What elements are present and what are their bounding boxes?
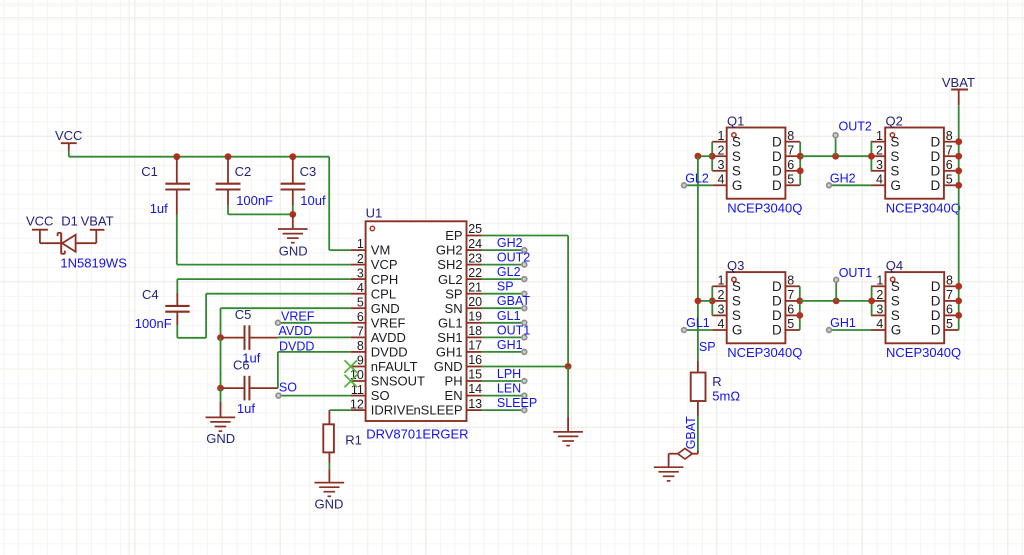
- svg-text:NCEP3040Q: NCEP3040Q: [886, 200, 961, 215]
- svg-text:Q2: Q2: [886, 113, 903, 128]
- svg-text:SP: SP: [445, 286, 462, 301]
- svg-text:4: 4: [718, 173, 725, 187]
- svg-text:S: S: [732, 134, 741, 149]
- svg-text:S: S: [890, 134, 899, 149]
- svg-text:DVDD: DVDD: [279, 339, 314, 353]
- svg-text:S: S: [732, 164, 741, 179]
- svg-text:AVDD: AVDD: [371, 330, 406, 345]
- svg-text:8: 8: [787, 274, 794, 288]
- svg-text:12: 12: [350, 397, 364, 411]
- svg-text:3: 3: [876, 158, 883, 172]
- svg-text:Q3: Q3: [727, 258, 744, 273]
- svg-text:5: 5: [787, 173, 794, 187]
- svg-text:GL1: GL1: [686, 316, 710, 330]
- svg-text:19: 19: [468, 310, 482, 324]
- svg-text:GH2: GH2: [436, 243, 463, 258]
- svg-text:SP: SP: [497, 280, 514, 294]
- svg-text:8: 8: [787, 129, 794, 143]
- svg-text:D: D: [931, 178, 941, 193]
- svg-text:G: G: [732, 178, 743, 193]
- svg-text:GH2: GH2: [497, 236, 523, 250]
- svg-text:5mΩ: 5mΩ: [712, 389, 740, 404]
- svg-text:24: 24: [468, 237, 482, 251]
- svg-text:SO: SO: [371, 388, 390, 403]
- svg-text:20: 20: [468, 295, 482, 309]
- svg-text:LEN: LEN: [497, 382, 521, 396]
- svg-text:CPL: CPL: [371, 286, 396, 301]
- svg-text:C4: C4: [142, 287, 159, 302]
- svg-text:1: 1: [876, 129, 883, 143]
- svg-text:R: R: [712, 374, 721, 389]
- svg-text:3: 3: [357, 266, 364, 280]
- svg-text:D: D: [772, 279, 782, 294]
- svg-text:DRV8701ERGER: DRV8701ERGER: [366, 427, 468, 442]
- svg-text:6: 6: [946, 158, 953, 172]
- svg-text:D1: D1: [61, 213, 78, 228]
- svg-text:2: 2: [876, 143, 883, 157]
- svg-text:18: 18: [468, 324, 482, 338]
- svg-text:SLEEP: SLEEP: [497, 396, 537, 410]
- svg-text:D: D: [772, 134, 782, 149]
- svg-text:6: 6: [946, 303, 953, 317]
- svg-text:4: 4: [876, 317, 883, 331]
- svg-text:SH1: SH1: [437, 330, 462, 345]
- svg-text:SN: SN: [445, 301, 463, 316]
- svg-text:2: 2: [876, 288, 883, 302]
- svg-text:VBAT: VBAT: [942, 75, 975, 90]
- svg-text:nSLEEP: nSLEEP: [413, 403, 462, 418]
- svg-text:D: D: [931, 323, 941, 338]
- svg-text:VREF: VREF: [281, 310, 315, 324]
- svg-text:14: 14: [468, 382, 482, 396]
- svg-text:8: 8: [357, 339, 364, 353]
- svg-text:11: 11: [351, 383, 364, 397]
- svg-text:S: S: [732, 308, 741, 323]
- svg-text:D: D: [772, 149, 782, 164]
- svg-text:4: 4: [718, 317, 725, 331]
- svg-text:2: 2: [718, 143, 725, 157]
- svg-text:OUT2: OUT2: [497, 251, 530, 265]
- svg-text:10uf: 10uf: [300, 193, 326, 208]
- svg-text:21: 21: [468, 280, 482, 294]
- svg-text:GH1: GH1: [497, 338, 523, 352]
- svg-text:8: 8: [946, 274, 953, 288]
- svg-text:6: 6: [357, 310, 364, 324]
- svg-text:D: D: [931, 164, 941, 179]
- svg-text:DVDD: DVDD: [371, 345, 408, 360]
- svg-text:5: 5: [946, 173, 953, 187]
- svg-text:17: 17: [468, 339, 482, 353]
- svg-text:16: 16: [468, 353, 482, 367]
- svg-text:VCC: VCC: [55, 128, 82, 143]
- svg-text:GH2: GH2: [830, 171, 856, 185]
- svg-text:G: G: [891, 323, 902, 338]
- svg-text:GND: GND: [279, 244, 308, 259]
- svg-text:D: D: [772, 294, 782, 309]
- svg-text:S: S: [732, 149, 741, 164]
- svg-text:S: S: [890, 149, 899, 164]
- svg-text:D: D: [931, 134, 941, 149]
- svg-text:AVDD: AVDD: [279, 324, 313, 338]
- svg-text:GBAT: GBAT: [497, 294, 530, 308]
- svg-text:D: D: [931, 308, 941, 323]
- svg-text:Q4: Q4: [886, 258, 903, 273]
- svg-text:D: D: [772, 178, 782, 193]
- svg-text:1uf: 1uf: [150, 201, 168, 216]
- svg-text:D: D: [931, 279, 941, 294]
- svg-text:C5: C5: [235, 307, 252, 322]
- svg-text:25: 25: [468, 222, 482, 236]
- svg-text:GL1: GL1: [497, 309, 521, 323]
- svg-text:9: 9: [357, 354, 364, 368]
- svg-text:G: G: [732, 323, 743, 338]
- svg-text:VCC: VCC: [26, 214, 53, 229]
- svg-text:NCEP3040Q: NCEP3040Q: [727, 345, 802, 360]
- svg-text:G: G: [890, 178, 901, 193]
- svg-text:2: 2: [718, 288, 725, 302]
- svg-text:7: 7: [787, 288, 794, 302]
- svg-text:GL1: GL1: [438, 315, 463, 330]
- svg-text:SO: SO: [279, 381, 297, 395]
- svg-text:R1: R1: [345, 433, 362, 448]
- svg-text:3: 3: [718, 158, 725, 172]
- svg-text:5: 5: [946, 317, 953, 331]
- svg-text:1: 1: [718, 274, 725, 288]
- svg-text:4: 4: [876, 173, 883, 187]
- svg-text:S: S: [732, 279, 741, 294]
- svg-text:D: D: [931, 294, 941, 309]
- svg-text:U1: U1: [366, 206, 383, 221]
- svg-text:22: 22: [468, 266, 482, 280]
- svg-text:100nF: 100nF: [236, 193, 273, 208]
- svg-text:D: D: [772, 323, 782, 338]
- svg-text:SNSOUT: SNSOUT: [371, 374, 425, 389]
- svg-text:8: 8: [946, 129, 953, 143]
- svg-text:5: 5: [357, 295, 364, 309]
- svg-text:SP: SP: [699, 340, 716, 354]
- svg-text:100nF: 100nF: [135, 316, 172, 331]
- svg-text:7: 7: [946, 288, 953, 302]
- svg-text:23: 23: [468, 251, 482, 265]
- svg-text:GND: GND: [434, 359, 463, 374]
- svg-text:VREF: VREF: [371, 315, 406, 330]
- svg-text:1uf: 1uf: [237, 401, 255, 416]
- svg-text:S: S: [732, 294, 741, 309]
- svg-text:6: 6: [787, 303, 794, 317]
- svg-text:1: 1: [357, 237, 364, 251]
- svg-text:OUT1: OUT1: [839, 266, 872, 280]
- svg-text:OUT1: OUT1: [497, 323, 530, 337]
- svg-text:GH1: GH1: [436, 345, 463, 360]
- svg-text:D: D: [931, 149, 941, 164]
- svg-text:3: 3: [876, 303, 883, 317]
- svg-text:7: 7: [787, 143, 794, 157]
- svg-text:GL2: GL2: [685, 171, 709, 185]
- svg-text:GND: GND: [314, 497, 343, 512]
- svg-text:4: 4: [357, 281, 364, 295]
- svg-text:13: 13: [468, 397, 482, 411]
- svg-text:GND: GND: [206, 431, 235, 446]
- svg-text:C2: C2: [235, 164, 252, 179]
- svg-text:VM: VM: [371, 243, 391, 258]
- svg-text:Q1: Q1: [727, 113, 744, 128]
- svg-text:S: S: [890, 164, 899, 179]
- svg-text:3: 3: [718, 303, 725, 317]
- svg-text:VCP: VCP: [371, 257, 398, 272]
- svg-text:1N5819WS: 1N5819WS: [60, 256, 127, 271]
- svg-text:2: 2: [357, 252, 364, 266]
- svg-text:C3: C3: [300, 164, 317, 179]
- svg-text:S: S: [891, 279, 900, 294]
- svg-text:D: D: [772, 308, 782, 323]
- svg-text:D: D: [772, 164, 782, 179]
- svg-text:GBAT: GBAT: [684, 416, 698, 449]
- svg-text:IDRIVE: IDRIVE: [371, 403, 415, 418]
- svg-text:1: 1: [876, 274, 883, 288]
- svg-text:CPH: CPH: [371, 272, 398, 287]
- svg-text:EP: EP: [445, 228, 462, 243]
- svg-text:nFAULT: nFAULT: [371, 359, 418, 374]
- svg-text:NCEP3040Q: NCEP3040Q: [727, 200, 802, 215]
- svg-text:GL2: GL2: [438, 272, 463, 287]
- svg-text:GH1: GH1: [830, 316, 856, 330]
- svg-text:NCEP3040Q: NCEP3040Q: [886, 345, 961, 360]
- svg-text:S: S: [891, 308, 900, 323]
- svg-text:SH2: SH2: [437, 257, 462, 272]
- svg-text:7: 7: [357, 325, 364, 339]
- svg-text:15: 15: [468, 368, 482, 382]
- svg-text:LPH: LPH: [497, 367, 521, 381]
- svg-text:S: S: [891, 294, 900, 309]
- svg-text:GL2: GL2: [497, 265, 521, 279]
- svg-text:GND: GND: [371, 301, 400, 316]
- svg-text:OUT2: OUT2: [839, 119, 872, 133]
- svg-text:1: 1: [718, 129, 725, 143]
- svg-text:7: 7: [946, 143, 953, 157]
- svg-text:VBAT: VBAT: [81, 213, 114, 228]
- svg-text:5: 5: [787, 317, 794, 331]
- svg-text:C6: C6: [233, 358, 250, 373]
- svg-text:PH: PH: [445, 374, 463, 389]
- svg-text:C1: C1: [141, 164, 158, 179]
- svg-text:EN: EN: [445, 388, 463, 403]
- svg-text:6: 6: [787, 158, 794, 172]
